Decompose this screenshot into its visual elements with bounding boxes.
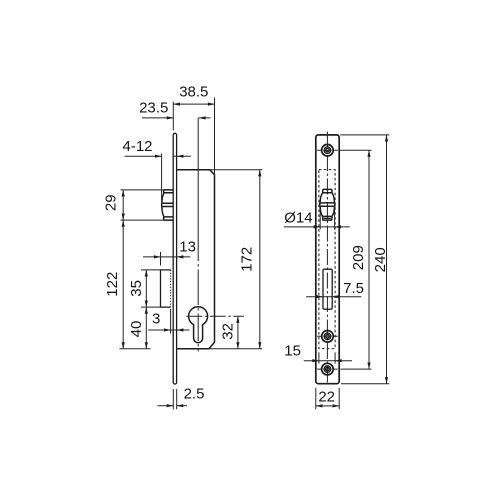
svg-text:29: 29 (102, 194, 119, 211)
svg-text:22: 22 (318, 388, 335, 405)
svg-text:7.5: 7.5 (343, 280, 364, 297)
svg-text:240: 240 (372, 247, 389, 272)
svg-text:3: 3 (152, 311, 160, 328)
svg-text:13: 13 (179, 238, 196, 255)
svg-text:122: 122 (104, 272, 121, 297)
svg-text:35: 35 (128, 280, 145, 297)
svg-text:172: 172 (239, 247, 256, 272)
svg-text:32: 32 (219, 323, 236, 340)
svg-text:38.5: 38.5 (179, 84, 208, 101)
svg-text:2.5: 2.5 (184, 386, 205, 403)
svg-text:Ø14: Ø14 (284, 209, 312, 226)
svg-text:15: 15 (284, 342, 301, 359)
svg-text:4-12: 4-12 (122, 138, 152, 155)
svg-text:40: 40 (128, 321, 145, 338)
svg-text:23.5: 23.5 (139, 100, 168, 117)
svg-text:209: 209 (350, 245, 367, 270)
